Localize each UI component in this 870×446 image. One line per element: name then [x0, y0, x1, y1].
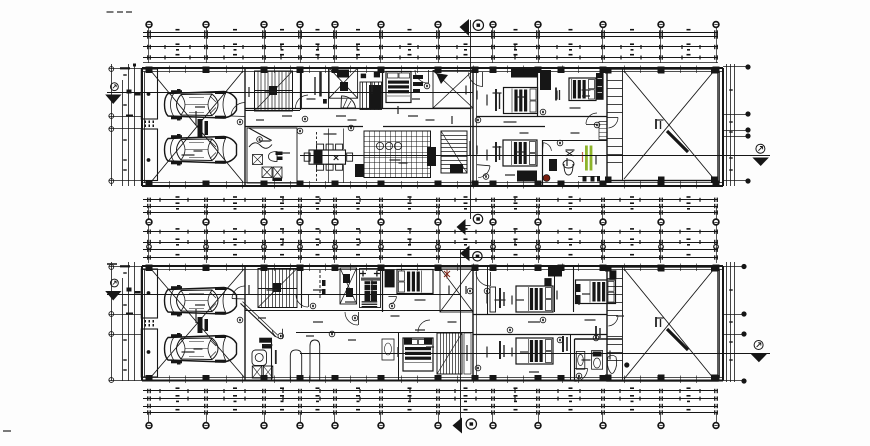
wall x555 bottom — [554, 266, 556, 312]
car 2 top plan — [165, 134, 237, 166]
hanger closet top plan — [360, 82, 382, 110]
dimension line A1b — [143, 34, 718, 38]
stair1 center block — [269, 86, 277, 95]
kitchen appliances bottom plan — [360, 269, 381, 308]
garage entry hatch top-plan — [145, 121, 155, 128]
left section marker top plan — [105, 83, 121, 104]
corridor arcs bottom plan — [345, 312, 430, 333]
hall wall x301 bottom — [301, 267, 303, 308]
sheet corner text bottom-left — [3, 430, 11, 431]
nightstand bed3 bottom plan — [576, 270, 617, 303]
wall y335 bottom — [473, 334, 607, 336]
kitchen door arc bottom plan — [388, 296, 396, 309]
bed room1 top plan — [504, 88, 538, 114]
garage X diagonals bottom plan — [151, 269, 244, 377]
bath labels bottom plan — [562, 326, 629, 367]
dimension line D3 — [143, 404, 718, 408]
left planter upper bottom-plan — [141, 269, 157, 318]
stair1 landing line bottom — [258, 288, 297, 290]
bed room2 top plan — [569, 78, 596, 101]
garage door arc bottom plan — [232, 286, 245, 299]
left planter upper top-plan — [141, 69, 157, 119]
extra room annotations — [194, 87, 664, 357]
closet black upper — [511, 69, 537, 78]
door arc room1 — [468, 73, 483, 87]
garage X diagonals top plan — [151, 71, 243, 182]
grid bubbles middle row — [146, 206, 719, 225]
tendal strip — [464, 333, 471, 374]
north/section arrow top — [460, 19, 484, 36]
dimension line A3 — [143, 54, 718, 60]
bedrooms wall x473 bottom — [472, 266, 474, 381]
stair wall x300 — [300, 68, 302, 110]
room labels bottom plan — [182, 281, 625, 373]
bottom plan wall columns — [146, 265, 720, 382]
bedroom wall x383 — [382, 68, 384, 109]
corridor wall y126 — [245, 126, 363, 128]
door arc hall bottom plan — [476, 272, 490, 286]
stair1 center block bottom — [273, 283, 281, 292]
wall blobs top plan — [361, 72, 380, 78]
grid bubbles bottom row — [146, 413, 719, 429]
garage door arc top plan — [231, 103, 245, 117]
section cut horizontal right bottom plan — [300, 353, 770, 355]
section cut vertical top plan — [470, 20, 472, 219]
bath door arc bottom plan — [272, 329, 283, 339]
dressing room top plan — [296, 68, 329, 109]
duct room X bottom plan — [440, 268, 473, 312]
right section marker top plan — [756, 144, 765, 153]
patio diagonal label — [667, 131, 688, 152]
window mullion ticks top plan — [170, 66, 697, 189]
garage entry hatch bottom-plan — [145, 320, 155, 327]
stair2 foot block — [450, 164, 463, 173]
nightstand room3 — [495, 142, 500, 162]
patio diagonal label bottom — [667, 329, 688, 350]
red drain mark — [543, 175, 550, 182]
wall y314 bottom — [473, 314, 607, 316]
dim vertical ticks above bottom plan — [149, 232, 717, 263]
bath right bottom plan — [575, 339, 623, 381]
red mark duct bottom — [444, 270, 450, 279]
car 1 top plan — [165, 89, 237, 121]
black corner kitchen tiles — [355, 164, 364, 177]
bath window piers top plan — [578, 176, 600, 182]
dimension line B1 — [143, 196, 718, 202]
left dim lines bottom plan — [109, 262, 143, 382]
garage right wall bottom — [244, 266, 246, 381]
green door bars — [585, 146, 592, 171]
dark counter right of tiles — [427, 147, 436, 166]
stair1 landing line — [255, 90, 293, 92]
section cut horizontal left bottom plan — [107, 294, 460, 296]
grid bubbles top row — [146, 22, 719, 33]
hall arc bottom — [296, 295, 308, 307]
wall x537 upper — [537, 68, 539, 117]
wall y127 bedrooms — [473, 126, 545, 128]
left planter lower bottom-plan — [141, 329, 157, 377]
closet X bottom plan — [340, 268, 357, 304]
dimension line B3 — [143, 210, 718, 214]
garage center post — [198, 119, 209, 137]
dimension line C2 — [143, 238, 718, 245]
door arc room2 — [586, 113, 597, 124]
garage right wall — [244, 68, 246, 186]
tiled floor top plan — [364, 131, 431, 178]
bath right top plan — [549, 151, 574, 175]
dimension line C4 — [143, 254, 718, 260]
bath lower-left top plan — [247, 128, 297, 183]
side closet right1 — [490, 278, 552, 312]
bedrooms wall inner x476.5 bottom — [476, 266, 478, 381]
right section marker bottom plan — [754, 341, 763, 350]
dimension line B2 — [143, 202, 718, 209]
bed mid-bottom bottom plan — [403, 338, 433, 371]
bed right3 bottom plan — [576, 280, 616, 304]
patio bottom plan — [607, 267, 718, 381]
closet black lower — [517, 171, 537, 182]
patio corner columns bottom — [605, 265, 718, 381]
dresser right of bed — [413, 75, 423, 93]
dimension line D4 — [143, 409, 718, 415]
staircase 1 top plan — [255, 71, 293, 111]
dimension line D1 — [143, 387, 718, 393]
corridor wall y126 right — [383, 126, 473, 128]
bed top-mid bottom plan — [397, 270, 433, 294]
bed right1 bottom plan — [516, 286, 553, 312]
dimension line C1 — [143, 228, 718, 234]
window mullion ticks bottom plan — [170, 264, 697, 384]
door circles top plan — [237, 83, 600, 146]
section cut horizontal right top plan — [300, 155, 770, 157]
bedrooms wall inner x476.5 — [476, 68, 478, 186]
bath door arc top plan — [543, 143, 551, 151]
small circles row above bottom plan — [147, 245, 719, 250]
car 1 bottom plan — [165, 285, 237, 317]
chamfer diagonal wall bottom plan — [241, 302, 278, 337]
section arrow above bottom plan — [460, 246, 482, 262]
dim vertical ticks top — [149, 33, 717, 64]
staircase TENDAL bottom plan — [437, 333, 462, 374]
section arrow bottom — [453, 418, 477, 434]
bed right2 bottom plan — [516, 338, 553, 364]
left dim lines top plan — [109, 64, 143, 187]
section cut vertical bottom plan — [460, 249, 462, 419]
room labels top plan — [182, 83, 597, 176]
shelf right x604 — [599, 122, 607, 140]
wardrobe room2 top plan — [596, 73, 604, 100]
stair landing wall — [245, 110, 300, 112]
door arc room3 — [477, 165, 490, 180]
corridor wall y332 bottom — [296, 332, 473, 334]
bath bottom-mid bottom plan — [252, 338, 277, 381]
section cut horizontal left top plan — [107, 92, 473, 94]
right dim lines bottom plan — [723, 262, 746, 383]
patio corner columns — [605, 67, 718, 183]
wall y140 bath right — [542, 140, 607, 142]
sink bottom plan mid — [382, 339, 394, 360]
car 2 bottom plan — [165, 333, 237, 365]
bath arches bottom plan — [290, 340, 319, 380]
left section marker bottom plan — [105, 279, 121, 300]
door arc bedroom top-mid — [415, 70, 428, 83]
closet black upper 2 — [540, 70, 551, 90]
staircase 1 bottom plan — [258, 269, 297, 308]
nightstand room2 — [555, 88, 560, 101]
hall door dashed bottom — [319, 270, 321, 300]
closet black bottom plan — [548, 267, 562, 277]
nightstand room1 — [495, 89, 500, 111]
left planter lower top-plan — [141, 129, 157, 181]
dimension line C3 — [143, 248, 718, 252]
dimension line A2 — [143, 43, 718, 50]
wall x542 lower — [542, 140, 544, 186]
right dim lines top plan — [723, 64, 750, 186]
dimension line A1 — [143, 29, 718, 35]
corridor wall y108 — [245, 108, 471, 110]
stove circles on tiles — [376, 142, 401, 149]
bed top-mid top plan — [386, 72, 411, 103]
patio ladder strips top plan — [607, 81, 622, 163]
fridge black bottom plan — [385, 269, 395, 287]
top plan wall columns — [146, 67, 720, 188]
staircase 2 top plan — [441, 131, 467, 173]
bubble connectors row2 to C1 — [149, 225, 717, 232]
roof overhang line top — [143, 62, 718, 64]
closet X top plan — [329, 68, 358, 98]
bottom plan outer walls — [142, 266, 723, 381]
bedroom wall x399 bottom — [398, 332, 400, 380]
wall y116 bedrooms — [477, 116, 608, 118]
patio ladder strips bottom plan — [607, 279, 622, 361]
top plan outer walls — [142, 68, 723, 186]
garage center post bottom — [198, 317, 209, 333]
section arrow middle — [457, 214, 483, 235]
dimension line D2 — [143, 395, 718, 402]
patio center label top plan — [655, 119, 661, 129]
patio center label bottom plan — [655, 317, 661, 327]
duct room X top plan — [433, 71, 473, 109]
tiny text left mid — [107, 263, 117, 265]
bedrooms wall x473 — [472, 68, 474, 186]
patio top plan — [607, 69, 718, 181]
bed3 room wall bottom — [573, 266, 575, 312]
wall x383 bottom — [382, 266, 384, 312]
dining table top plan — [304, 129, 352, 184]
sheet corner text top-left — [107, 11, 133, 12]
red tick near green — [582, 152, 584, 162]
side labels right2 — [499, 341, 505, 359]
bed room3 top plan — [503, 140, 537, 166]
door wedge top plan — [341, 96, 356, 108]
wall x487 bottom — [487, 266, 489, 315]
wall x570 bath bottom — [570, 335, 572, 381]
door circles bottom plan — [237, 288, 599, 371]
corridor wall y310 bottom — [245, 310, 473, 312]
